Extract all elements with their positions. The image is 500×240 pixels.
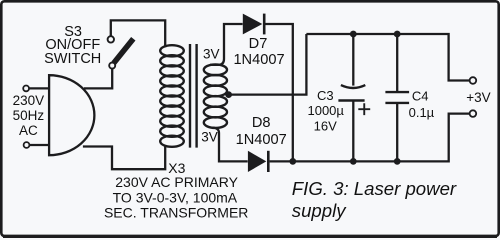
svg-text:3V: 3V [201, 130, 218, 145]
terminal: AC input live [23, 86, 29, 92]
svg-text:230V AC PRIMARY: 230V AC PRIMARY [115, 174, 238, 190]
wire center tap to top rail [232, 34, 307, 95]
wire bottom rail [293, 114, 470, 162]
label C3 polarity + [358, 103, 370, 115]
svg-text:SEC. TRANSFORMER: SEC. TRANSFORMER [104, 205, 248, 221]
wire top rail [306, 34, 469, 81]
svg-text:1000µ: 1000µ [307, 103, 344, 118]
svg-text:C3: C3 [317, 88, 334, 103]
wire plug to transformer primary bottom [83, 146, 165, 169]
terminal: output bottom [470, 110, 477, 117]
svg-text:+3V: +3V [466, 90, 490, 105]
svg-text:AC: AC [19, 123, 38, 138]
svg-text:D7: D7 [249, 36, 268, 52]
wire [30, 144, 49, 146]
wire secondary bottom to D8 anode [212, 128, 248, 162]
transformer X3 core [190, 44, 197, 148]
node: C4 bottom junction [394, 158, 401, 165]
svg-text:1N4007: 1N4007 [236, 132, 287, 148]
node: rectifier output junction [289, 158, 296, 165]
switch S3 lever [114, 39, 134, 64]
svg-text:3V: 3V [203, 46, 220, 61]
wire plug to switch [84, 69, 112, 89]
switch S3 pole contact [109, 63, 115, 69]
node: center tap junction [225, 91, 232, 98]
svg-text:SWITCH: SWITCH [44, 51, 101, 67]
wire secondary top to D7 anode [210, 24, 243, 65]
terminal: output top [470, 77, 477, 84]
svg-text:supply: supply [292, 200, 347, 221]
svg-text:50Hz: 50Hz [13, 108, 45, 123]
wire switch to transformer primary top [111, 20, 165, 47]
capacitor C3 [338, 34, 365, 161]
svg-text:TO 3V-0-3V, 100mA: TO 3V-0-3V, 100mA [113, 189, 238, 205]
wire [29, 87, 48, 89]
transformer X3 primary winding [160, 45, 184, 147]
svg-text:1N4007: 1N4007 [233, 52, 284, 68]
node: C3 top junction [350, 31, 357, 38]
wire D8 cathode to junction [270, 160, 293, 162]
switch S3 throw contact [108, 36, 114, 42]
node: C4 top junction [394, 31, 401, 38]
svg-text:0.1µ: 0.1µ [409, 105, 435, 120]
wire D7 cathode to bottom rail [266, 24, 293, 161]
diode D7 [243, 14, 264, 35]
svg-text:FIG. 3: Laser power: FIG. 3: Laser power [292, 178, 457, 199]
svg-text:D8: D8 [252, 115, 271, 131]
node: C3 bottom junction [350, 158, 357, 165]
svg-text:230V: 230V [13, 93, 45, 108]
svg-text:C4: C4 [412, 88, 429, 103]
terminal: AC input neutral [24, 142, 30, 148]
diode D8 [248, 151, 268, 172]
svg-text:16V: 16V [314, 119, 337, 134]
mains plug symbol [49, 75, 94, 155]
transformer X3 secondary winding [204, 64, 227, 128]
capacitor C4 [385, 34, 409, 161]
